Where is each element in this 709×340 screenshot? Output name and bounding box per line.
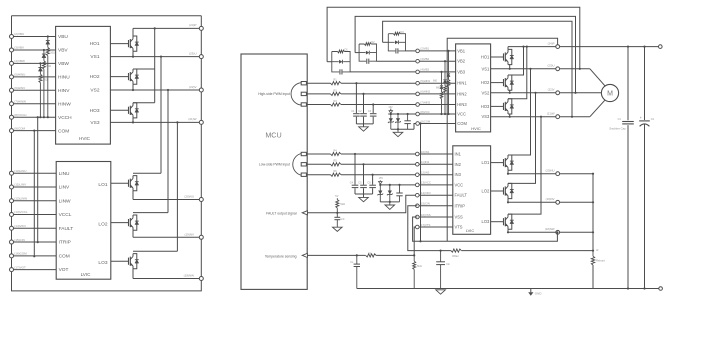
svg-text:(20)NU: (20)NU (545, 169, 554, 173)
svg-text:VS3: VS3 (482, 114, 490, 119)
svg-text:660: 660 (436, 87, 441, 90)
terminal (20)NU (right) (556, 172, 560, 176)
capacitor C5 (362, 163, 364, 165)
resistor R2 (331, 92, 342, 96)
terminal (2)VBU (10, 35, 14, 39)
wire emitter to phase (509, 64, 511, 69)
terminal (23)U (left) (199, 55, 203, 59)
bootstrap diode D2 + resistor branch (left diagram) (43, 50, 45, 54)
svg-text:(16)VSS: (16)VSS (420, 213, 431, 217)
svg-text:(3)VBV: (3)VBV (14, 46, 24, 50)
wire (19)NV line (508, 201, 593, 203)
wire P rail to DC+ (560, 46, 661, 48)
MCU temperature input arrow (302, 253, 307, 257)
wire terminal (8)VCCH to HVIC pin VCCH (12, 116, 56, 118)
terminal (16)COM (10, 254, 14, 258)
wire terminal to LVIC pin (right) (419, 205, 453, 207)
bootstrap network cell 2 (R/D/C) (355, 52, 359, 54)
terminal (6)HIN2 (right diagram) (416, 92, 420, 96)
svg-text:VTS: VTS (455, 225, 463, 230)
wire low-side PWM line 3 (307, 174, 417, 176)
wire terminal to HVIC pin (right) (419, 104, 455, 106)
wire bootstrap feed line 3 (top) (383, 21, 572, 117)
svg-text:(20)NU: (20)NU (184, 195, 194, 199)
wire bootstrap feed line 1 (top) (327, 7, 580, 69)
svg-text:LO1: LO1 (98, 182, 107, 188)
svg-text:+: + (640, 116, 642, 120)
resistor R5 (331, 162, 342, 166)
wire terminal to HVIC pin (right) (419, 113, 455, 115)
svg-text:(10)IN1: (10)IN1 (420, 150, 430, 154)
svg-text:15V: 15V (388, 106, 393, 109)
wire LO to Q10 gate (right) (491, 162, 504, 164)
svg-text:HO1: HO1 (481, 55, 490, 60)
svg-text:D1: D1 (344, 48, 348, 52)
wire terminal to LVIC pin (right) (419, 174, 453, 176)
capacitor C6 (372, 174, 374, 176)
capacitor C7 (VCCH filter) (407, 114, 409, 121)
terminal (13)VCCL (10, 213, 14, 217)
resistor R1 (331, 81, 342, 85)
wire terminal (12)LINW to LVIC pin LINW (12, 200, 57, 202)
wire LO to Q5 gate (111, 222, 129, 224)
bootstrap network cell 1 (R/D/C) (327, 61, 332, 63)
wire high-side PWM line 1 (307, 82, 417, 84)
svg-text:(5)HIN1: (5)HIN1 (420, 79, 430, 83)
MCU block (241, 54, 307, 289)
capacitor C12 snubber (627, 47, 629, 121)
svg-text:HO3: HO3 (90, 108, 100, 114)
MCU high-side output pad 2 (301, 92, 306, 95)
wire VCCL clamp bottom bus (380, 201, 399, 203)
wire terminal to LVIC pin (right) (419, 216, 453, 218)
terminal (22)V (right) (556, 91, 560, 95)
terminal (3)VB2 (right diagram) (416, 59, 420, 63)
wire HO2 to Q8 gate (right) (491, 82, 504, 84)
svg-text:(15)CIN: (15)CIN (14, 238, 25, 242)
terminal (14)VFO (10, 226, 14, 230)
wire HO1 to IGBT Q1 gate (110, 43, 128, 45)
svg-text:IN3: IN3 (455, 172, 462, 177)
wire VCCL 15V line (380, 184, 417, 186)
wire phase to low-side collector (508, 69, 531, 155)
terminal (6)HINV (10, 88, 14, 92)
bootstrap diode D5 branch (right diagram) (444, 61, 446, 79)
svg-text:LO2: LO2 (482, 189, 490, 194)
terminal (9)COM (10, 129, 14, 133)
svg-text:VB1: VB1 (457, 48, 465, 53)
terminal (4)VB3 (right diagram) (416, 70, 420, 74)
svg-text:VS1: VS1 (90, 54, 99, 60)
svg-text:(13)VCC: (13)VCC (420, 181, 431, 185)
wire phase line (22)V (491, 92, 602, 94)
svg-text:(14)VFO: (14)VFO (420, 191, 432, 195)
wire terminal to HVIC pin (right) (419, 71, 455, 73)
wire terminal (16)COM to LVIC pin COM (12, 255, 57, 257)
ground (VCCL clamp) (389, 202, 391, 205)
svg-text:(19)NV: (19)NV (184, 232, 194, 236)
wire phase line (21)W (491, 116, 590, 118)
svg-text:Temperature sensing: Temperature sensing (265, 255, 297, 259)
wire terminal (10)LINU to LVIC pin LINU (12, 172, 57, 174)
wire terminal to LVIC pin (right) (419, 163, 453, 165)
wire VCCH 15V line (388, 113, 417, 115)
capacitor C1 (355, 82, 357, 84)
wire terminal to HVIC pin (right) (419, 93, 455, 95)
svg-text:IN1: IN1 (455, 152, 462, 157)
wire terminal (7)HINW to HVIC pin HINW (12, 103, 56, 105)
terminal DC- (659, 287, 663, 291)
svg-text:VBU: VBU (58, 34, 68, 40)
terminal (16)VSS (right diagram) (416, 215, 420, 219)
svg-text:VB2: VB2 (457, 59, 465, 64)
bootstrap diode D4 branch (right diagram) (448, 51, 450, 73)
capacitor C3 (372, 103, 374, 105)
svg-text:(17)VOT: (17)VOT (14, 265, 26, 269)
wire Q6 emitter to (18)NW (132, 269, 134, 279)
wire LO to Q4 gate (111, 182, 129, 184)
wire emitter to phase (509, 90, 511, 93)
wire terminal to HVIC pin (right) (419, 123, 455, 125)
svg-text:660: 660 (433, 80, 438, 83)
svg-text:(11)LINV: (11)LINV (14, 183, 26, 187)
transistor Q3 (left high-side W) (128, 107, 130, 114)
svg-text:LO1: LO1 (482, 160, 490, 165)
resistor R8 (temp line) (366, 253, 377, 257)
capacitor C9 (FAULT filter) (336, 213, 338, 218)
wire temperature sensing line (307, 254, 414, 256)
wire VCC bus (left diagram) (37, 117, 39, 242)
svg-text:HVIC: HVIC (471, 126, 481, 131)
zener Z4 (389, 185, 391, 202)
wire terminal (14)VFO to LVIC pin FAULT (12, 227, 57, 229)
svg-text:VCCL: VCCL (59, 212, 72, 218)
wire terminal (6)HINV to HVIC pin HINV (12, 89, 56, 91)
svg-text:LINW: LINW (59, 198, 71, 204)
svg-text:(22)V: (22)V (548, 88, 555, 92)
svg-text:ITRIP: ITRIP (455, 203, 466, 208)
transistor Q2 (left high-side V) (128, 73, 130, 80)
svg-text:LO3: LO3 (98, 260, 107, 266)
IC U3 HVIC block (right diagram) (456, 44, 491, 132)
IC U4 LVIC block (right diagram) (453, 146, 491, 235)
MCU low-side connector arc (293, 154, 301, 176)
wire (20)NU line (508, 173, 593, 175)
terminal (15)CIN (10, 240, 14, 244)
wire LO to Q6 gate (111, 260, 129, 262)
node P rail (left diagram) (133, 27, 200, 29)
terminal (10)LINU (10, 171, 14, 175)
svg-text:VCC: VCC (457, 112, 466, 117)
wire high-side PWM line 2 (307, 93, 417, 95)
terminal (2)VB1 (right diagram) (416, 49, 420, 53)
zener Z3 (379, 185, 381, 202)
terminal (5)HIN1 (right diagram) (416, 81, 420, 85)
wire terminal to LVIC pin (right) (419, 184, 453, 186)
terminal (14)VFO (right diagram) (416, 193, 420, 197)
svg-text:HINV: HINV (58, 88, 70, 94)
wire terminal (11)LINV to LVIC pin LINV (12, 186, 57, 188)
wire COM bus (left diagram) (33, 131, 35, 257)
wire cap common bus (high side) (356, 123, 373, 125)
capacitor C13 DC bus electrolytic (644, 47, 646, 120)
wire HO1 to Q7 gate (right) (491, 56, 504, 58)
wire HO3 to Q9 gate (right) (491, 105, 504, 107)
ground marker (ITRIP filter) (436, 290, 446, 294)
wire phase line (23)U (491, 68, 590, 70)
svg-text:15V: 15V (379, 177, 384, 180)
ground (low-side input caps) (363, 194, 365, 197)
svg-text:(12)IN3: (12)IN3 (420, 171, 430, 175)
terminal (12)IN3 (right diagram) (416, 173, 420, 177)
svg-text:GND: GND (535, 292, 543, 296)
svg-text:(7)HINW: (7)HINW (14, 99, 26, 103)
MCU low-side output pad 2 (301, 163, 306, 166)
svg-text:(11)IN2: (11)IN2 (420, 160, 430, 164)
svg-text:50Ω: 50Ω (50, 52, 55, 55)
wire terminal to HVIC pin (right) (419, 60, 455, 62)
svg-text:(21)W: (21)W (547, 112, 555, 116)
terminal (4)VBW (10, 61, 14, 65)
terminal (13)VCC (right diagram) (416, 183, 420, 187)
terminal (8)VCCH (10, 115, 14, 119)
wire Q4 emitter to (20)NU (132, 191, 134, 200)
wire HO2 to IGBT Q2 gate (110, 76, 128, 78)
svg-text:5kΩ: 5kΩ (340, 202, 345, 206)
svg-text:(2)VB1: (2)VB1 (420, 47, 429, 51)
svg-text:(8)VCCH: (8)VCCH (14, 113, 26, 117)
IC U1 HVIC block (left diagram) (56, 26, 111, 144)
svg-text:(24)P: (24)P (548, 41, 555, 45)
bootstrap network cell 3 (R/D/C) (383, 41, 389, 43)
svg-text:LINV: LINV (59, 185, 70, 191)
wire high-side PWM line 3 (307, 104, 417, 106)
svg-text:LO3: LO3 (482, 219, 490, 224)
svg-text:Rfilter: Rfilter (452, 255, 459, 258)
svg-text:(18)NW: (18)NW (545, 227, 555, 231)
terminal (10)IN1 (right diagram) (416, 152, 420, 156)
wire terminal (15)CIN to LVIC pin ITRIP (12, 241, 57, 243)
svg-text:LO2: LO2 (98, 222, 107, 228)
svg-text:(7)HIN3: (7)HIN3 (420, 100, 430, 104)
bootstrap diode D3 + resistor branch (left diagram) (39, 63, 41, 67)
svg-text:(9)COM: (9)COM (14, 126, 25, 130)
svg-text:VOT: VOT (59, 267, 69, 273)
svg-text:(15)CIN: (15)CIN (420, 202, 430, 206)
transistor Q5 (left low-side) (128, 219, 130, 226)
terminal (11)IN2 (right diagram) (416, 163, 420, 167)
terminal (17)VTS (right diagram) (416, 225, 420, 229)
svg-text:(12)LINW: (12)LINW (14, 196, 27, 200)
terminal (7)HINW (10, 102, 14, 106)
svg-text:HO1: HO1 (90, 41, 100, 47)
svg-text:VCC: VCC (455, 182, 464, 187)
resistor R4 (331, 152, 342, 156)
svg-text:(8)VCC: (8)VCC (420, 110, 429, 114)
MCU FAULT input arrow (302, 211, 307, 215)
transistor Q12 (right low-side) (503, 218, 505, 225)
svg-text:FAULT output signal: FAULT output signal (266, 211, 297, 215)
transistor Q1 (left high-side U) (128, 40, 130, 47)
svg-text:(18)NW: (18)NW (184, 274, 195, 278)
IC U2 LVIC block (left diagram) (56, 162, 111, 280)
svg-text:5kΩ: 5kΩ (417, 264, 422, 268)
terminal DC+ (659, 45, 663, 49)
wire Q5 emitter to (19)NV (132, 230, 134, 237)
svg-text:(23)U: (23)U (548, 64, 555, 68)
terminal (5)HINU (10, 75, 14, 79)
wire terminal (3)VBV to HVIC pin VBV (12, 49, 56, 51)
svg-text:D2: D2 (371, 40, 375, 44)
transistor Q7 (right high-side U) (503, 53, 505, 60)
svg-text:HO3: HO3 (481, 104, 490, 109)
svg-text:HIN1: HIN1 (457, 81, 467, 86)
svg-text:(24)P: (24)P (189, 23, 196, 27)
svg-text:5V: 5V (335, 194, 338, 198)
svg-text:HIN2: HIN2 (457, 91, 467, 96)
svg-text:VSS: VSS (455, 215, 463, 220)
svg-text:HVIC: HVIC (79, 136, 91, 141)
svg-text:MCU: MCU (265, 131, 281, 140)
wire VSS to NW tie bus (413, 217, 558, 241)
transistor Q10 (right low-side) (503, 159, 505, 166)
svg-text:(6)HINV: (6)HINV (14, 86, 25, 90)
svg-text:(14)VFO: (14)VFO (14, 224, 26, 228)
svg-text:(6)HIN2: (6)HIN2 (420, 90, 430, 94)
wire terminal (5)HINU to HVIC pin HINU (12, 76, 56, 78)
terminal (23)U (right) (556, 67, 560, 71)
wire low-side PWM line 1 (307, 153, 417, 155)
wire Q8 collector to P (508, 47, 524, 75)
terminal (17)VOT (10, 268, 14, 272)
wire HO3 to IGBT Q3 gate (110, 109, 128, 111)
svg-text:(4)VB3: (4)VB3 (420, 68, 429, 72)
svg-text:(23)U: (23)U (189, 51, 197, 55)
bootstrap diode D6 branch (right diagram) (441, 72, 443, 85)
resistor R3 (331, 103, 342, 107)
ground (VCCH clamp) (397, 129, 399, 132)
terminal (22)V (left) (199, 88, 203, 92)
wire (18)NW line (508, 231, 593, 233)
wire VS2 / V phase line (left) (110, 89, 201, 91)
wire motor connector (590, 69, 606, 87)
wire phase to low-side collector (508, 93, 536, 184)
transistor Q11 (right low-side) (503, 187, 505, 194)
resistor R10 (ITRIP filter) (451, 249, 462, 253)
svg-text:HO2: HO2 (481, 80, 490, 85)
svg-text:(10)LINU: (10)LINU (14, 169, 26, 173)
wire cell3 output to VB1 (406, 50, 417, 52)
IPM module boundary (right diagram) (447, 38, 557, 241)
svg-text:VS1: VS1 (482, 66, 490, 71)
svg-text:50Ω: 50Ω (43, 78, 48, 81)
bootstrap diode D1 + resistor branch (left diagram) (47, 37, 49, 41)
svg-text:ITRIP: ITRIP (59, 240, 71, 246)
svg-text:(21)W: (21)W (188, 117, 196, 121)
svg-text:COM: COM (457, 121, 467, 126)
wire U to Q4 collector (160, 57, 162, 174)
svg-text:COM: COM (58, 128, 69, 134)
svg-text:HINU: HINU (58, 74, 70, 80)
terminal (7)HIN3 (right diagram) (416, 103, 420, 107)
MCU high-side connector arc (291, 83, 301, 105)
wire terminal to LVIC pin (right) (419, 194, 453, 196)
wire shunt bus vertical (592, 174, 594, 251)
wire VCCH clamp bottom bus (391, 128, 414, 130)
svg-text:Cin: Cin (446, 263, 450, 266)
svg-text:(2)VBU: (2)VBU (14, 32, 24, 36)
svg-text:VBV: VBV (58, 48, 68, 54)
MCU low-side output pad 1 (301, 152, 306, 155)
svg-text:D3: D3 (400, 30, 404, 34)
svg-text:(22)V: (22)V (189, 85, 196, 89)
wire terminal to HVIC pin (right) (419, 82, 455, 84)
wire VS1 / U phase line (left) (110, 56, 201, 58)
transistor Q8 (right high-side V) (503, 79, 505, 86)
svg-text:(3)VB2: (3)VB2 (420, 57, 429, 61)
svg-text:(13)VCCL: (13)VCCL (14, 210, 28, 214)
MCU low-side output pad 3 (301, 173, 306, 176)
svg-text:Snubber Cap: Snubber Cap (609, 126, 626, 130)
wire V to Q5 collector (167, 90, 169, 213)
terminal (21)W (left) (199, 120, 203, 124)
svg-text:LVIC: LVIC (466, 228, 475, 233)
wire cell1 output to VB3 (350, 71, 416, 73)
transistor Q4 (left low-side) (128, 180, 130, 187)
capacitor C2 (362, 93, 364, 95)
wire terminal to LVIC pin (right) (419, 226, 453, 228)
transistor Q6 (left low-side) (128, 258, 130, 265)
resistor R7 FAULT pull-up (336, 208, 338, 213)
terminal (19)NV (right) (556, 200, 560, 204)
svg-text:M: M (607, 91, 613, 98)
terminal (24)P (left diagram) (200, 16, 202, 27)
wire bootstrap feed line 2 (top) (355, 16, 575, 92)
svg-text:COM: COM (59, 253, 70, 259)
terminal (20)NU (199, 198, 203, 202)
svg-text:(17)VTS: (17)VTS (420, 223, 431, 227)
svg-text:FAULT: FAULT (59, 226, 74, 232)
MCU high-side output pad 1 (301, 82, 306, 85)
wire LO to Q12 gate (right) (491, 221, 504, 223)
svg-text:VS3: VS3 (90, 120, 99, 126)
resistor R9 thermistor pull-down 5k (413, 255, 415, 261)
wire FAULT line (307, 195, 417, 213)
wire emitter to phase (509, 114, 511, 117)
svg-text:High‑side PWM input: High‑side PWM input (258, 92, 290, 96)
svg-text:1nF: 1nF (340, 218, 345, 221)
wire VS3 / W phase line (left) (110, 121, 201, 123)
wire W to Q6 collector (176, 122, 178, 251)
wire terminal to LVIC pin (right) (419, 153, 453, 155)
left module boundary (12, 15, 202, 17)
svg-text:VB3: VB3 (457, 69, 465, 74)
capacitor C4 (354, 153, 356, 155)
supply 15V arrow (high side) (390, 109, 392, 114)
wire COM(9) down to VSS bus (420, 124, 422, 242)
wire terminal (13)VCCL to LVIC pin VCCL (12, 214, 57, 216)
svg-text:HIN3: HIN3 (457, 102, 467, 107)
svg-text:FAULT: FAULT (455, 193, 468, 198)
supply 15V arrow (low side) (379, 180, 381, 185)
zener Z2 (397, 114, 399, 129)
transistor Q9 (right high-side W) (503, 103, 505, 110)
svg-text:(16)COM: (16)COM (14, 252, 27, 256)
svg-text:(9)COM: (9)COM (420, 119, 431, 123)
wire terminal to HVIC pin (right) (419, 50, 455, 52)
svg-text:LVIC: LVIC (81, 272, 92, 277)
svg-text:(19)NV: (19)NV (546, 197, 555, 201)
